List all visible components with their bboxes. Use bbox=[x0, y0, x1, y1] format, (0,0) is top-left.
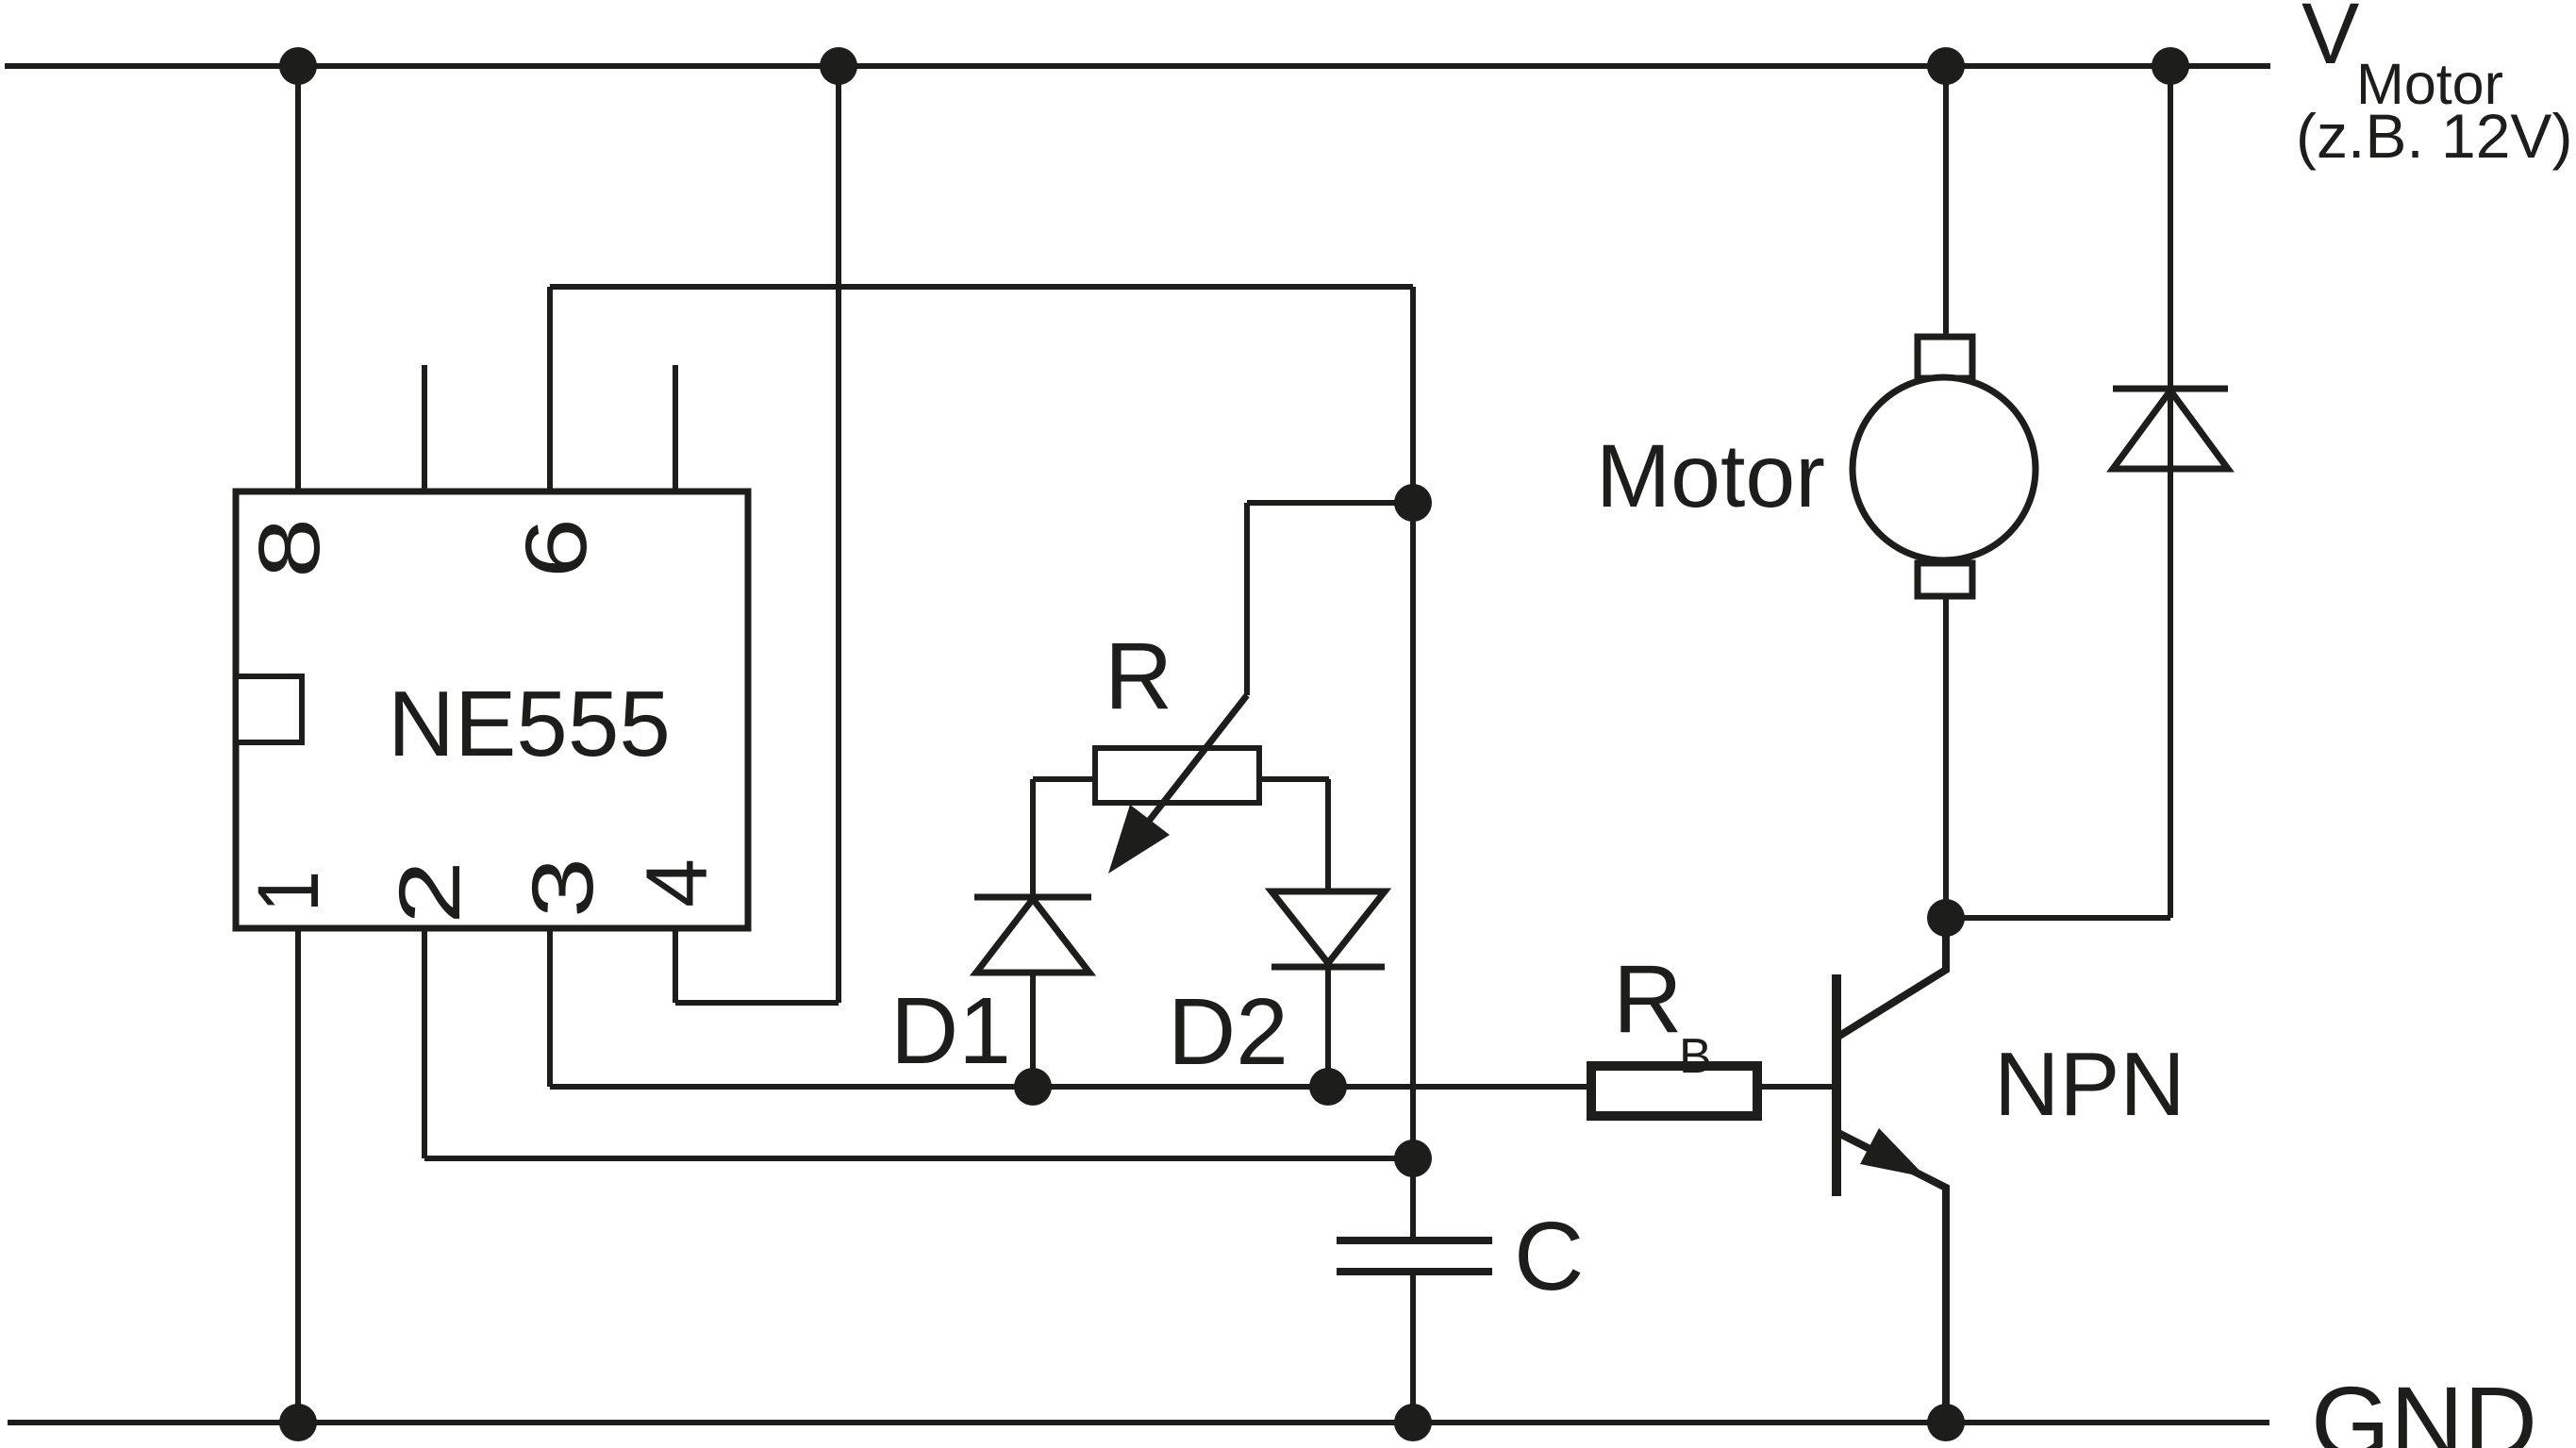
transistor Q1 emitter arrowhead bbox=[1860, 1128, 1926, 1177]
wire flyback diode branch bbox=[2168, 66, 2173, 918]
motor M1 body circle bbox=[1853, 377, 2036, 560]
wire pin 5 stub bbox=[673, 365, 678, 491]
potentiometer R body bbox=[1095, 748, 1259, 803]
wire wiper vertical bbox=[1244, 503, 1250, 695]
wire pin 6 horizontal run bbox=[550, 284, 1413, 290]
svg-text:C: C bbox=[1514, 1202, 1584, 1310]
svg-text:4: 4 bbox=[629, 858, 725, 907]
wire motor bottom lead bbox=[1943, 596, 1949, 918]
node junction dot D2/pin3 line bbox=[1309, 1068, 1347, 1106]
transistor Q1 collector stroke bbox=[1836, 918, 1946, 1038]
node junction dot motor/VMotor bbox=[1927, 47, 1965, 85]
wire collector to flyback diode bbox=[1946, 915, 2170, 921]
node junction dot pin8/VMotor bbox=[279, 47, 317, 85]
diode D1 cathode bar bbox=[974, 894, 1091, 901]
flyback diode triangle bbox=[2113, 391, 2228, 469]
wire pin 3 vertical bbox=[547, 928, 553, 1087]
diode D2 bottom wire bbox=[1325, 967, 1331, 1087]
svg-text:3: 3 bbox=[515, 857, 611, 918]
diode D1 triangle bbox=[976, 899, 1089, 973]
capacitor C top plate bbox=[1337, 1237, 1492, 1244]
diode D1 anode wire bbox=[1030, 779, 1036, 897]
wire pin 4 horizontal bbox=[675, 1000, 839, 1006]
wire GND bottom rail bbox=[8, 1420, 2269, 1425]
node junction dot pin1/GND bbox=[279, 1404, 317, 1441]
wire threshold vertical down to C bbox=[1410, 503, 1416, 1240]
node junction dot collector/motor bbox=[1927, 899, 1965, 937]
node junction dot pin4 riser/VMotor bbox=[820, 47, 857, 85]
wire RB to base bbox=[1762, 1084, 1833, 1090]
wire pin 1 to GND rail bbox=[295, 928, 301, 1423]
diode D1 bottom wire bbox=[1030, 973, 1036, 1087]
diode D2 cathode bar bbox=[1271, 964, 1385, 971]
svg-text:D1: D1 bbox=[890, 978, 1011, 1084]
wire VMotor top supply rail bbox=[5, 63, 2270, 69]
svg-text:GND: GND bbox=[2311, 1365, 2537, 1448]
wire pin 4 riser to VMotor rail bbox=[836, 66, 841, 1003]
wire pin 2 horizontal to C node bbox=[424, 1156, 1413, 1161]
transistor Q1 emitter stroke bbox=[1836, 1132, 1946, 1423]
flyback diode cathode bar bbox=[2113, 386, 2228, 392]
potentiometer R wiper shaft bbox=[1143, 695, 1247, 828]
svg-text:2: 2 bbox=[382, 860, 478, 924]
svg-text:B: B bbox=[1679, 1029, 1712, 1084]
svg-text:Motor: Motor bbox=[1596, 426, 1825, 526]
diode D2 triangle bbox=[1271, 891, 1385, 963]
svg-text:8: 8 bbox=[241, 518, 338, 578]
potentiometer R wiper arrowhead bbox=[1108, 805, 1170, 874]
svg-text:6: 6 bbox=[508, 518, 605, 578]
svg-text:NE555: NE555 bbox=[388, 672, 671, 775]
node junction dot C/GND bbox=[1394, 1404, 1432, 1441]
resistor RB body bbox=[1591, 1066, 1757, 1116]
node junction dot flyback diode/VMotor bbox=[2152, 47, 2189, 85]
wire pin 8 to VMotor rail bbox=[295, 66, 301, 491]
wire pin 2 vertical bbox=[422, 928, 427, 1158]
wire R right lead bbox=[1259, 776, 1329, 782]
IC U1 NE555 body bbox=[236, 491, 748, 928]
node junction dot D1/pin3 line bbox=[1014, 1068, 1052, 1106]
wire pin 7 stub bbox=[422, 365, 427, 491]
transistor Q1 base bar bbox=[1832, 974, 1841, 1196]
capacitor C bottom plate bbox=[1337, 1268, 1492, 1275]
wire pin 4 vertical bbox=[673, 928, 678, 1003]
svg-text:1: 1 bbox=[241, 871, 337, 912]
motor M1 top terminal bbox=[1918, 337, 1972, 378]
node junction dot emitter/GND bbox=[1927, 1404, 1965, 1441]
node A junction dot threshold/wiper bbox=[1394, 484, 1432, 522]
svg-text:(z.B. 12V): (z.B. 12V) bbox=[2296, 101, 2572, 171]
wire threshold drop to node A bbox=[1410, 287, 1416, 503]
wire R left lead bbox=[1033, 776, 1095, 782]
svg-text:R: R bbox=[1613, 945, 1683, 1053]
wire node A to wiper horizontal bbox=[1247, 500, 1413, 506]
wire C to GND rail bbox=[1410, 1272, 1416, 1423]
wire motor top lead bbox=[1943, 66, 1949, 337]
diode D2 anode wire bbox=[1325, 779, 1331, 891]
svg-text:V: V bbox=[2302, 0, 2359, 82]
svg-text:D2: D2 bbox=[1168, 979, 1288, 1085]
svg-text:NPN: NPN bbox=[1994, 1034, 2185, 1135]
wire pin 6 vertical stub bbox=[547, 287, 553, 491]
wire pin 3 horizontal to RB bbox=[550, 1084, 1587, 1090]
IC U1 pin-1 notch square bbox=[236, 676, 302, 742]
node junction dot pin2/C bbox=[1394, 1140, 1432, 1177]
motor M1 bottom terminal bbox=[1918, 563, 1972, 596]
svg-text:R: R bbox=[1105, 624, 1172, 729]
